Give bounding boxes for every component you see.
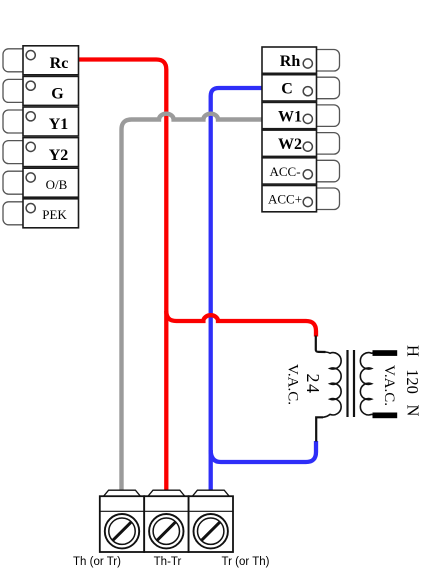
svg-text:W1: W1 xyxy=(278,108,302,125)
svg-text:ACC+: ACC+ xyxy=(268,192,302,207)
transformer primary bottom lead xyxy=(316,417,323,441)
transformer T1 xyxy=(285,336,423,442)
transformer secondary bottom terminal N xyxy=(373,413,398,419)
svg-text:Rc: Rc xyxy=(50,55,69,72)
svg-text:ACC-: ACC- xyxy=(269,164,300,179)
svg-text:Th-Tr: Th-Tr xyxy=(154,556,182,568)
terminal Y1 xyxy=(3,107,79,136)
svg-text:Y2: Y2 xyxy=(49,147,69,164)
svg-text:V.A.C.: V.A.C. xyxy=(285,364,301,405)
svg-text:O/B: O/B xyxy=(46,177,68,192)
wire: blue tee from junction to transformer primary bottom xyxy=(211,441,316,462)
wire: red Rc to Th-Tr terminal xyxy=(78,60,166,491)
terminal W1 xyxy=(262,102,340,128)
terminal C xyxy=(262,75,340,101)
transformer secondary winding 120 V.A.C. xyxy=(360,353,373,415)
terminal G xyxy=(3,76,79,105)
svg-text:PEK: PEK xyxy=(42,207,67,222)
svg-text:V.A.C.: V.A.C. xyxy=(381,365,397,406)
wire: blue C to Tr (or Th) terminal xyxy=(211,88,262,490)
terminal O/B xyxy=(3,168,79,197)
transformer primary winding 24 V.A.C. xyxy=(323,352,341,417)
svg-text:Rh: Rh xyxy=(280,53,301,70)
screw terminal Th-Tr xyxy=(144,490,188,568)
terminal ACC+ xyxy=(262,186,340,212)
svg-text:Th (or Tr): Th (or Tr) xyxy=(73,556,121,568)
svg-text:G: G xyxy=(51,86,64,103)
transformer secondary top terminal H xyxy=(373,350,398,356)
svg-text:W2: W2 xyxy=(278,136,302,153)
terminal Y2 xyxy=(3,138,79,167)
svg-text:24: 24 xyxy=(303,374,323,395)
transformer core xyxy=(348,350,355,417)
svg-text:H: H xyxy=(404,345,423,357)
wire: gray W1 to Th (or Tr) terminal, hops over red and blue xyxy=(122,114,263,490)
terminal ACC- xyxy=(262,158,340,184)
svg-text:N: N xyxy=(404,405,423,417)
terminal PEK xyxy=(3,199,79,228)
terminal Rc xyxy=(3,46,79,75)
terminal Rh xyxy=(262,47,340,73)
svg-text:Tr (or Th): Tr (or Th) xyxy=(222,556,270,568)
terminal W2 xyxy=(262,130,340,156)
svg-text:C: C xyxy=(281,81,293,98)
transformer primary top lead xyxy=(316,336,326,353)
svg-text:120: 120 xyxy=(403,369,422,394)
svg-text:Y1: Y1 xyxy=(49,116,69,133)
screw terminal Th (or Tr) xyxy=(73,490,144,568)
screw terminal Tr (or Th) xyxy=(189,490,270,568)
wire: red tee from junction to transformer primary top, hops over blue xyxy=(166,311,316,337)
